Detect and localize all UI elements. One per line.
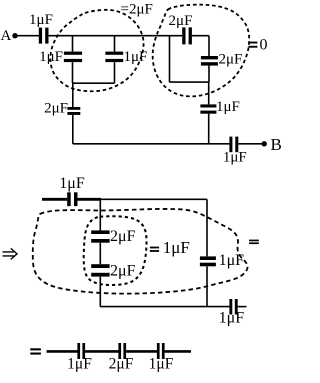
svg-text:1μF: 1μF	[67, 356, 92, 373]
svg-text:1μF: 1μF	[149, 356, 174, 373]
implies arrow	[3, 248, 18, 259]
svg-text:2μF: 2μF	[109, 356, 134, 373]
capacitor 2uF rectangle right plates	[201, 56, 218, 66]
svg-text:0: 0	[260, 37, 268, 54]
dashed outer loop around middle network	[33, 209, 248, 294]
wire from A to capacitor 1uF	[18, 35, 40, 37]
svg-text:B: B	[271, 135, 282, 154]
wire middle top thick left	[42, 198, 67, 201]
capacitor 1uF equivalent first plates	[77, 343, 85, 359]
wire equivalent right	[165, 350, 191, 353]
capacitor 1uF middle top plates	[67, 192, 77, 206]
wire rectangle right lower	[208, 66, 210, 83]
wire middle right branch upper	[206, 199, 208, 256]
wire middle bottom	[100, 306, 229, 308]
label = right of outer loop	[249, 240, 259, 244]
node A dot	[12, 33, 17, 38]
wire middle left branch lower	[99, 277, 101, 307]
wire bottom main	[73, 143, 230, 145]
dashed loop around rectangle	[153, 5, 250, 97]
svg-text:1μF: 1μF	[223, 150, 247, 166]
svg-text:1μF: 1μF	[59, 175, 85, 192]
capacitor 1uF middle bottom plates	[229, 299, 237, 315]
svg-text:2μF: 2μF	[44, 101, 68, 117]
dashed loop around parallel pair	[50, 10, 143, 91]
svg-text:A: A	[1, 28, 12, 44]
wire equivalent left	[47, 350, 78, 353]
svg-text:2μF: 2μF	[219, 52, 243, 68]
svg-text:1μF: 1μF	[219, 309, 245, 326]
capacitor 1uF left parallel plates	[64, 52, 82, 63]
svg-text:1μF: 1μF	[219, 252, 245, 269]
capacitor 2uF equivalent plates	[118, 343, 126, 359]
capacitor 1uF right parallel plates	[105, 52, 123, 63]
capacitor 1uF middle right plates	[200, 256, 216, 266]
wire rectangle bottom side	[170, 81, 210, 83]
wire parallel box bottom	[73, 82, 115, 84]
svg-text:2μF: 2μF	[110, 228, 136, 245]
wire middle top thin to right branch	[100, 198, 207, 200]
label = 0 for loop	[248, 42, 257, 48]
wire B cap to node B	[238, 143, 261, 145]
wire middle bottom right stub	[238, 306, 247, 308]
label = of equivalent circuit	[30, 348, 41, 354]
svg-text:2μF: 2μF	[169, 13, 193, 29]
svg-text:2μF: 2μF	[110, 262, 136, 279]
svg-text:1μF: 1μF	[216, 99, 240, 115]
capacitor 2uF lower-left plates	[67, 107, 80, 115]
svg-text:1μF: 1μF	[29, 12, 53, 28]
wire right parallel branch upper	[114, 36, 116, 52]
wire middle right branch lower	[206, 266, 208, 306]
capacitor 2uF middle upper plates	[91, 230, 109, 242]
wire middle left branch mid	[99, 243, 101, 265]
label = 1uF inner loop	[150, 247, 159, 252]
wire middle top thick right	[78, 198, 102, 201]
wire left parallel branch upper	[72, 36, 74, 52]
capacitor 1uF equivalent third plates	[157, 343, 165, 359]
wire top main (C1 to rectangle, through junctions)	[49, 35, 183, 37]
wire right branch below rectangle	[208, 82, 210, 104]
capacitor 2uF middle lower plates	[91, 264, 109, 276]
svg-text:=2μF: =2μF	[121, 2, 153, 18]
wire right branch to bottom	[208, 114, 210, 144]
dashed inner loop around series 2uF pair	[84, 216, 147, 285]
capacitor 2uF rectangle top plates	[182, 27, 192, 44]
wire equivalent third	[126, 350, 157, 353]
wire top rectangle right segment	[192, 35, 209, 37]
wire right parallel branch lower	[114, 62, 116, 83]
capacitor 1uF at B plates	[229, 137, 238, 153]
svg-text:1μF: 1μF	[39, 49, 63, 65]
capacitor C1 1uF (series at A) plates	[39, 28, 49, 44]
capacitor 1uF right branch plates	[200, 104, 216, 113]
node B dot	[262, 141, 267, 146]
svg-text:1μF: 1μF	[124, 49, 148, 65]
wire rectangle left side	[169, 36, 171, 82]
svg-text:1μF: 1μF	[163, 238, 190, 257]
wire rectangle right upper	[208, 36, 210, 56]
wire left branch to bottom	[72, 115, 74, 144]
wire left branch down to 2uF	[72, 83, 74, 107]
wire middle left branch upper	[99, 199, 101, 230]
wire left parallel branch lower	[72, 62, 74, 83]
wire equivalent second	[85, 350, 118, 353]
